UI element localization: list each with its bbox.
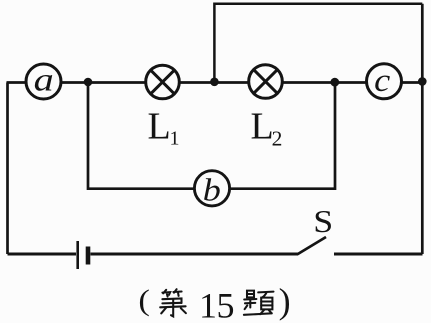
svg-text:1: 1 [170, 128, 180, 150]
wire battery to switch [91, 253, 299, 256]
svg-text:L: L [148, 106, 171, 148]
wire bottom left to battery [8, 253, 77, 256]
node junction right (b branch) [330, 78, 339, 87]
meter b [194, 171, 229, 208]
wire b branch left vertical [88, 82, 195, 189]
caption character di (第) [160, 289, 186, 316]
wire left stub to meter a [7, 81, 28, 84]
meter c [367, 61, 402, 98]
svg-text:b: b [203, 174, 221, 208]
wire L1 to L2 [180, 81, 250, 84]
svg-text:a: a [34, 61, 54, 98]
svg-text:L: L [251, 106, 274, 148]
wire a to L1 [61, 81, 145, 84]
node junction right rail [418, 77, 427, 86]
wire L2 to meter c [283, 81, 368, 84]
svg-text:15: 15 [199, 285, 234, 323]
node junction top-loop tap [210, 78, 219, 87]
wire switch to right rail [334, 253, 423, 256]
caption character ti (题) [244, 291, 274, 315]
wire c to right rail [402, 81, 423, 84]
node junction left (b branch top) [84, 78, 93, 87]
svg-text:): ) [279, 281, 291, 321]
label L1 [148, 106, 180, 150]
wire b branch right vertical [230, 82, 336, 189]
battery [78, 241, 88, 269]
meter a [26, 61, 61, 99]
svg-text:(: ( [138, 283, 149, 316]
wire left rail down [6, 83, 9, 255]
wire top loop [214, 4, 422, 82]
svg-text:c: c [374, 61, 391, 98]
switch S blade [297, 237, 326, 255]
lamp L2 [249, 65, 283, 99]
wire right rail down [421, 4, 424, 254]
svg-text:S: S [313, 205, 333, 240]
svg-text:2: 2 [272, 126, 283, 150]
label L2 [251, 106, 283, 151]
lamp L1 [146, 65, 180, 99]
